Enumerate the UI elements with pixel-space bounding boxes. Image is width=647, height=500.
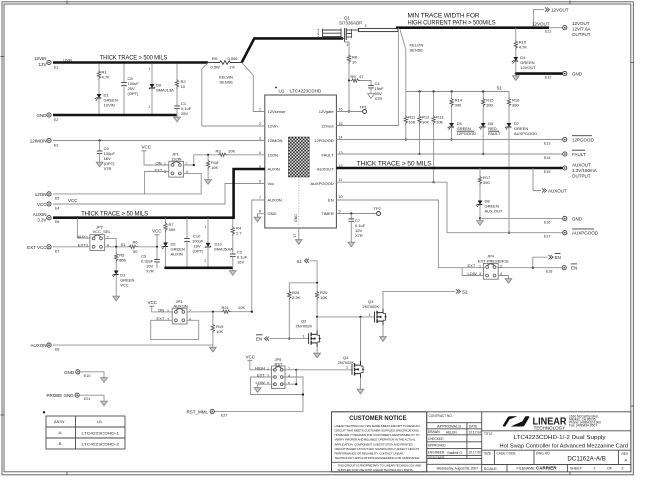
ground at C7 (348, 240, 355, 247)
svg-text:AUXPGOOD: AUXPGOOD (514, 131, 537, 136)
svg-text:FAULT: FAULT (321, 153, 334, 158)
wire JP3 pin2 to R21 (187, 311, 222, 313)
svg-text:47: 47 (359, 74, 364, 79)
capacitor C8 (OPT) (120, 61, 140, 116)
svg-text:3: 3 (259, 137, 261, 141)
wire kelvin sense right to pin1 (242, 63, 265, 112)
terminal E11 12VOUT (532, 21, 591, 37)
svg-text:EN: EN (555, 255, 561, 260)
svg-text:AUXON: AUXON (174, 304, 188, 309)
jumper JP5 RST (255, 357, 290, 389)
wire thick 12VOUT trace (396, 26, 549, 29)
wire thick diagonal RS to Q1 (242, 38, 343, 62)
ground at D3 (113, 294, 120, 301)
ground at JP4 (505, 277, 512, 284)
wire 12VOUT to E11 (549, 27, 563, 29)
svg-text:U1: U1 (279, 89, 285, 94)
svg-text:1%: 1% (229, 65, 235, 70)
svg-text:3.3V: 3.3V (37, 218, 46, 223)
svg-text:-A: -A (58, 430, 62, 435)
terminal E3 12IMON (30, 138, 59, 147)
svg-text:E27: E27 (221, 413, 227, 417)
wire thick AUXOUT pin12 to E15 (336, 161, 562, 168)
wire JP3 EXT loop (151, 320, 199, 339)
svg-text:E13: E13 (544, 142, 550, 146)
svg-text:Wednesday, August 08, 2007: Wednesday, August 08, 2007 (437, 466, 479, 470)
ground at GND bar (229, 269, 236, 276)
svg-text:4.7K: 4.7K (102, 75, 111, 80)
svg-text:1: 1 (479, 264, 481, 268)
svg-text:10K: 10K (211, 165, 218, 170)
svg-text:DWG NO: DWG NO (536, 452, 550, 456)
ground at C9 (96, 160, 103, 167)
svg-text:GND: GND (572, 72, 583, 77)
svg-text:Si7336ADP: Si7336ADP (339, 21, 362, 26)
svg-text:12PGOOD: 12PGOOD (314, 138, 333, 143)
power VCC at JP1 (142, 145, 169, 166)
svg-text:2: 2 (500, 264, 502, 268)
svg-text:3: 3 (365, 24, 367, 28)
svg-text:GND: GND (64, 370, 75, 375)
svg-text:1: 1 (86, 235, 88, 239)
svg-text:12ON: 12ON (35, 192, 47, 197)
resistor R26 (288, 283, 301, 340)
svg-text:17: 17 (293, 234, 297, 238)
transistor Q4 2N7002K (338, 355, 365, 387)
svg-text:HIGH CURRENT PATH > 500MILS: HIGH CURRENT PATH > 500MILS (408, 20, 496, 27)
wire AUXIN drop to JP2 (76, 216, 90, 238)
svg-text:12VIN: 12VIN (104, 103, 115, 108)
svg-text:12VOUT: 12VOUT (520, 65, 536, 70)
svg-text:AUXPGOOD: AUXPGOOD (572, 231, 599, 236)
resistor R16 (507, 92, 520, 124)
svg-text:4: 4 (347, 43, 349, 47)
svg-text:10.17.04: 10.17.04 (469, 430, 482, 434)
power VCC at JP3 (148, 300, 173, 312)
wire 12VOUT flag riser (532, 8, 568, 29)
ground at E21 (101, 399, 108, 406)
wire EXTVCC E7 to JP2 pin3 (53, 246, 90, 248)
terminal E18 EN (532, 264, 578, 274)
svg-text:12PGOOD: 12PGOOD (572, 138, 595, 143)
svg-text:390: 390 (455, 103, 462, 108)
terminal E10 GND (64, 370, 104, 378)
resistor R15 (482, 90, 495, 123)
wire EN pin10 riser (336, 200, 485, 268)
svg-text:THIS CIRCUIT IS PROPRIETARY TO: THIS CIRCUIT IS PROPRIETARY TO LINEAR TE… (338, 464, 422, 468)
svg-text:SENSE: SENSE (220, 80, 234, 85)
svg-text:12VOUT: 12VOUT (551, 8, 569, 13)
svg-text:HOWEVER, IT REMAINS THE CUSTOM: HOWEVER, IT REMAINS THE CUSTOMER'S RESPO… (335, 433, 421, 437)
resistor R7 (164, 216, 176, 242)
terminal E21 PROBE GND (46, 393, 104, 401)
svg-text:ON: ON (158, 307, 164, 312)
svg-text:RS: RS (212, 56, 218, 61)
trace MIN WIDTH label (408, 13, 496, 27)
svg-text:2: 2 (259, 122, 261, 126)
resistor R13 (432, 90, 444, 183)
svg-text:1: 1 (149, 67, 151, 71)
svg-text:2N7002K: 2N7002K (363, 304, 380, 309)
svg-text:AUXPGOOD: AUXPGOOD (310, 181, 333, 186)
svg-text:E3: E3 (54, 144, 58, 148)
capacitor C10 (OPT) (183, 216, 204, 269)
resistor R6 (128, 240, 157, 254)
svg-text:VCC: VCC (68, 198, 78, 203)
svg-text:SUPPLIED FOR USE WITH LINEAR T: SUPPLIED FOR USE WITH LINEAR TECHNOLOGY … (338, 468, 414, 472)
terminal E13 12PGOOD (544, 136, 595, 146)
svg-text:R9: R9 (351, 74, 357, 79)
svg-text:VCC: VCC (148, 300, 158, 305)
node S1 receive flag (297, 259, 318, 283)
wire Q4 drain riser (360, 317, 362, 361)
svg-text:3.3V/150mA: 3.3V/150mA (572, 168, 597, 173)
svg-text:10K: 10K (216, 329, 223, 334)
wire FAULT pin13 to E14 (336, 153, 562, 155)
svg-text:1: 1 (267, 367, 269, 371)
LED D4 green 12VOUT (512, 55, 537, 75)
svg-text:14: 14 (339, 136, 343, 140)
LED D7 green AUXPGOOD (505, 121, 537, 234)
svg-text:50: 50 (133, 249, 138, 254)
svg-text:5: 5 (267, 381, 269, 385)
wire AUXON E8 (53, 344, 213, 346)
svg-text:-B: -B (58, 441, 62, 446)
svg-text:APPLICATION. COMPONENT SUBSTI: APPLICATION. COMPONENT SUBSTITUTION AND … (335, 442, 413, 446)
svg-text:TP2: TP2 (374, 206, 382, 211)
wire JP5 EXT loop to E27 (214, 377, 304, 411)
svg-text:S1: S1 (497, 86, 503, 91)
svg-text:390: 390 (486, 103, 493, 108)
svg-text:1: 1 (303, 335, 305, 339)
svg-text:X7R: X7R (355, 233, 363, 238)
terminal E7 EXTVCC (27, 245, 59, 254)
capacitor C9 (OPT) (97, 139, 116, 171)
svg-text:E7: E7 (55, 249, 59, 253)
svg-text:25V: 25V (181, 111, 188, 116)
resistor R4 (231, 219, 242, 254)
ground at Q3 (380, 335, 387, 342)
node S1 rail (406, 86, 509, 92)
svg-text:390: 390 (483, 180, 490, 185)
svg-text:R21: R21 (222, 305, 230, 310)
svg-text:LTC4223CDHD-2: LTC4223CDHD-2 (82, 441, 120, 446)
resistor R11 (404, 92, 416, 141)
svg-text:E8: E8 (55, 348, 59, 352)
svg-text:7: 7 (318, 36, 320, 40)
svg-text:10K: 10K (436, 120, 443, 125)
node KELVIN SENSE right (400, 30, 424, 92)
svg-text:ON: ON (156, 160, 162, 165)
svg-text:U1: U1 (97, 419, 103, 424)
svg-text:SMAJ13A: SMAJ13A (156, 88, 174, 93)
svg-text:10K: 10K (422, 120, 429, 125)
resistor R2 (175, 61, 186, 89)
svg-text:VCC: VCC (142, 145, 152, 150)
svg-text:10K: 10K (408, 120, 415, 125)
terminal E1 (34, 56, 58, 70)
svg-text:0.5W: 0.5W (211, 65, 221, 70)
svg-text:E5: E5 (55, 196, 59, 200)
svg-text:THICK TRACE > 50 MILS: THICK TRACE > 50 MILS (357, 161, 432, 168)
svg-text:10K: 10K (238, 305, 245, 310)
svg-text:1: 1 (594, 467, 596, 471)
svg-text:12IMON: 12IMON (30, 139, 47, 144)
terminal E15 AUXOUT (544, 163, 597, 179)
svg-text:3: 3 (164, 170, 166, 174)
customer notice (332, 412, 427, 472)
resistor R17 (478, 167, 491, 201)
svg-text:MIN TRACE WIDTH FOR: MIN TRACE WIDTH FOR (408, 13, 481, 20)
svg-text:AUXIN: AUXIN (33, 212, 47, 217)
svg-text:12VIN: 12VIN (34, 56, 47, 61)
svg-text:AUXON: AUXON (268, 198, 282, 203)
svg-text:866: 866 (119, 258, 126, 263)
svg-text:SIZE: SIZE (484, 452, 491, 456)
svg-text:VCC: VCC (152, 229, 162, 234)
svg-text:EXT: EXT (468, 263, 476, 268)
svg-text:E1: E1 (54, 66, 58, 70)
svg-text:AUXOUT: AUXOUT (572, 163, 591, 168)
wire 12ON E5 loop to JP1 (53, 173, 201, 194)
svg-text:12ON: 12ON (171, 156, 182, 161)
wire kelvin right 12Vout pin15 (336, 28, 398, 126)
svg-text:E2: E2 (54, 118, 58, 122)
op-amp U1 LTC4223CDHD main IC (259, 87, 343, 228)
resistor RS sense 0.006 (208, 56, 242, 70)
svg-text:CHECKED: CHECKED (428, 437, 444, 441)
wire AUXON pin7 riser to R21 (252, 200, 265, 312)
wire 12Vgate pin16 (336, 81, 362, 113)
svg-text:EN: EN (571, 266, 577, 271)
svg-text:6: 6 (259, 180, 261, 184)
svg-text:GND: GND (268, 211, 277, 216)
node S2 flag (456, 289, 468, 294)
svg-text:PERFORMANCE OR RELIABILITY. C: PERFORMANCE OR RELIABILITY. CONTACT LINE… (335, 452, 404, 456)
svg-text:E6: E6 (55, 220, 59, 224)
terminal E5 12ON (35, 192, 60, 201)
svg-text:0.006: 0.006 (228, 56, 239, 61)
svg-text:REV: REV (622, 452, 629, 456)
svg-text:DC1162A-A/B: DC1162A-A/B (567, 456, 606, 463)
ground at Q2 (314, 351, 321, 358)
svg-text:S2: S2 (462, 289, 468, 294)
svg-text:2.2K: 2.2K (292, 295, 301, 300)
svg-text:10K: 10K (320, 295, 327, 300)
svg-text:Vladimir O.: Vladimir O. (447, 451, 463, 455)
svg-text:CIRCUIT BOARD LAYOUT MAY SIGNI: CIRCUIT BOARD LAYOUT MAY SIGNIFICANTLY A… (335, 447, 420, 451)
wire JP1 pin2 to R3 (184, 155, 218, 166)
svg-text:CUSTOMER NOTICE: CUSTOMER NOTICE (349, 415, 407, 422)
svg-text:11: 11 (339, 178, 343, 182)
svg-text:CONTRACT NO.: CONTRACT NO. (429, 414, 453, 418)
svg-text:OF: OF (607, 467, 613, 471)
svg-text:AUXIN: AUXIN (171, 252, 183, 257)
svg-text:12Vout: 12Vout (321, 124, 334, 129)
svg-text:CAGE CODE: CAGE CODE (497, 452, 516, 456)
resistor R5 866 (115, 247, 127, 271)
terminal E17 AUXPGOOD (544, 229, 599, 239)
svg-text:AUXON: AUXON (30, 343, 46, 348)
svg-text:TECHNOLOGY APPLICATIONS ENGINE: TECHNOLOGY APPLICATIONS ENGINEERING FOR … (335, 456, 421, 460)
wire GND E16 (480, 217, 563, 219)
svg-text:E21: E21 (84, 397, 90, 401)
svg-text:10: 10 (181, 84, 186, 89)
svg-text:Vcc: Vcc (268, 181, 275, 186)
svg-text:THICK TRACE > 50 MILS: THICK TRACE > 50 MILS (81, 211, 148, 218)
svg-text:VCC: VCC (246, 354, 256, 359)
ground at R19 / E8 (210, 345, 217, 352)
power VCC at R6/C3 (152, 229, 162, 248)
svg-text:1: 1 (259, 108, 261, 112)
capacitor C7 on TIMER pin9 (336, 212, 376, 240)
svg-text:10.17.06: 10.17.06 (469, 451, 482, 455)
ground at D8 (477, 218, 484, 225)
diode D9 SMAJ13A (149, 61, 175, 116)
capacitor C1 (174, 89, 192, 116)
ground at pin8 GND (254, 214, 265, 222)
terminal E14 FAULT (544, 150, 586, 160)
terminal E27 RST_MML (186, 409, 227, 417)
svg-text:S1: S1 (121, 242, 127, 247)
svg-text:AUXIN: AUXIN (268, 167, 280, 172)
wire AUXOUT flag riser (532, 167, 567, 194)
LED D3 green VCC (112, 271, 134, 295)
transistor Q2 2N7002K (296, 317, 321, 351)
svg-text:FAULT: FAULT (488, 131, 501, 136)
svg-text:RST_MML: RST_MML (186, 409, 208, 414)
test point TP2 (374, 206, 382, 216)
node 12VIN: thick trace E1 to RS (53, 55, 208, 63)
svg-text:SCALE: SCALE (484, 466, 497, 471)
resistor R3 (216, 148, 265, 156)
wire JP5 pin2 to Q4 gate (282, 369, 352, 371)
svg-text:X7R: X7R (375, 96, 383, 101)
terminal E8 AUXON (30, 343, 59, 352)
svg-text:12V/7.6A: 12V/7.6A (572, 27, 591, 32)
svg-text:THICK TRACE > 500 MILS: THICK TRACE > 500 MILS (100, 55, 168, 62)
svg-text:GND: GND (294, 214, 298, 222)
svg-text:12Vin: 12Vin (268, 124, 278, 129)
LED D2 green AUXIN (162, 242, 185, 270)
svg-text:12VOUT: 12VOUT (532, 22, 550, 27)
svg-text:E15: E15 (544, 170, 550, 174)
svg-text:VCC: VCC (37, 202, 47, 207)
svg-text:OUTPUT: OUTPUT (572, 32, 591, 37)
wire VCC E4 to pin6 (53, 184, 265, 205)
svg-text:16: 16 (339, 108, 343, 112)
svg-text:6: 6 (288, 381, 290, 385)
svg-text:4.7K: 4.7K (519, 45, 528, 50)
resistor R1 (97, 61, 110, 94)
wire 12IMON E3 to pin3 (53, 140, 265, 142)
svg-text:VERIFY PROPER AND RELIABLE OPE: VERIFY PROPER AND RELIABLE OPERATION IN … (335, 438, 416, 442)
assembly table (43, 411, 125, 449)
svg-text:DATE: DATE (469, 424, 477, 428)
svg-text:12Vgate: 12Vgate (319, 109, 335, 114)
ground at E10 (101, 376, 108, 383)
wire AUXPGOOD pin11 to E17 (336, 182, 562, 233)
wire JP1 EXT pin3 loop (145, 172, 169, 194)
wire kelvin sense left to pin2 (202, 63, 265, 127)
svg-text:10: 10 (352, 60, 357, 65)
svg-text:FILENAME:: FILENAME: (517, 467, 536, 471)
svg-text:CIRCUIT THAT MEETS CUSTOMER-SU: CIRCUIT THAT MEETS CUSTOMER-SUPPLIED SPE… (335, 429, 420, 433)
svg-text:TITLE: TITLE (484, 432, 493, 436)
svg-text:TIMER: TIMER (321, 211, 334, 216)
wire GND E12 (516, 72, 563, 75)
ground at JP5 pin5 (254, 384, 275, 392)
svg-text:EXT PRESENCE: EXT PRESENCE (478, 259, 509, 264)
svg-text:LTC4223CDHD: LTC4223CDHD (290, 89, 322, 94)
test point TP1 (360, 105, 368, 114)
svg-text:E17: E17 (544, 235, 550, 239)
resistor R21 (222, 305, 253, 313)
jumper JP1 12ON (155, 152, 188, 178)
resistor R20 (315, 283, 328, 318)
svg-text:8: 8 (259, 210, 261, 214)
svg-text:7: 7 (259, 196, 261, 200)
LED D6 red FAULT (479, 121, 501, 155)
svg-text:10: 10 (339, 195, 343, 199)
power VCC at JP5 (246, 354, 275, 370)
svg-text:APPROVALS: APPROVALS (437, 424, 461, 429)
wire EN jumper out to E18 (497, 267, 562, 269)
svg-text:1: 1 (167, 309, 169, 313)
Linear Technology logo (503, 414, 601, 430)
svg-text:DRAWN: DRAWN (428, 430, 441, 434)
svg-text:X7R: X7R (104, 166, 112, 171)
svg-text:12VOUT: 12VOUT (572, 21, 590, 26)
jumper JP4 EXT PRESENCE (462, 254, 509, 280)
svg-text:2: 2 (149, 105, 151, 109)
svg-text:TECHNOLOGY: TECHNOLOGY (534, 425, 566, 430)
title block (332, 412, 631, 472)
svg-text:ENGINEER: ENGINEER (428, 450, 445, 454)
wire JP5 pin6 riser (282, 370, 298, 386)
svg-text:12PGOOD: 12PGOOD (457, 131, 476, 136)
svg-text:AUX: AUX (78, 234, 87, 239)
svg-text:390: 390 (512, 103, 519, 108)
svg-text:HIGH: HIGH (255, 365, 265, 370)
terminal E2 (37, 113, 59, 122)
svg-text:LINEAR TECHNOLOGY HAS MADE A B: LINEAR TECHNOLOGY HAS MADE A BEST EFFORT… (335, 424, 421, 428)
resistor R10 (514, 27, 527, 57)
svg-text:ASSY: ASSY (54, 419, 65, 424)
svg-text:12VIN: 12VIN (63, 59, 73, 63)
svg-text:RST: RST (275, 362, 284, 367)
svg-text:1: 1 (205, 225, 207, 229)
wire R26/R20 top rail (289, 282, 318, 284)
transistor Q3 2N7002K (363, 291, 456, 334)
terminal E4 VCC (37, 202, 59, 211)
svg-text:12V: 12V (38, 62, 46, 67)
svg-text:PROBE GND: PROBE GND (46, 393, 74, 398)
wire GND E2 thick (53, 114, 177, 117)
svg-text:10K: 10K (228, 148, 235, 153)
svg-text:(OPT): (OPT) (193, 249, 205, 254)
diode D10 SMAJ5.0A (205, 216, 234, 269)
svg-text:OUTPUT: OUTPUT (572, 174, 591, 179)
svg-text:EN: EN (256, 337, 262, 342)
svg-text:1: 1 (369, 313, 371, 317)
capacitor C4 (368, 81, 385, 101)
svg-text:TP1: TP1 (360, 105, 368, 110)
svg-text:E10: E10 (84, 374, 90, 378)
svg-text:A: A (625, 458, 628, 463)
svg-text:EN: EN (328, 198, 334, 203)
wire 12PGOOD pin14 to E13 (336, 139, 562, 141)
